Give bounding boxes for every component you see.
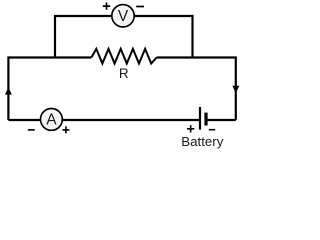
wire bottom horizontal (left of battery) xyxy=(8,119,199,121)
ammeter U-A circle xyxy=(41,109,63,131)
svg-text:A: A xyxy=(46,112,57,129)
current arrow up (left wire) xyxy=(5,87,12,94)
svg-text:V: V xyxy=(118,8,129,25)
ammeter + sign xyxy=(62,126,69,133)
resistor R xyxy=(91,49,156,64)
voltmeter U-V circle xyxy=(112,5,134,27)
voltmeter - sign xyxy=(136,6,144,8)
wire top-right horizontal + right vertical xyxy=(157,58,236,121)
wire voltmeter branch left xyxy=(55,16,112,58)
wire bottom-right (battery to right corner) xyxy=(207,119,236,121)
battery negative plate (short) xyxy=(204,113,207,126)
svg-text:R: R xyxy=(119,66,129,81)
wire voltmeter branch right xyxy=(134,16,193,58)
battery - sign xyxy=(209,129,216,131)
ammeter - sign xyxy=(28,129,35,131)
svg-text:Battery: Battery xyxy=(181,134,223,149)
battery positive plate (long) xyxy=(199,107,201,130)
battery + sign xyxy=(187,125,194,132)
voltmeter + sign xyxy=(103,2,110,9)
current arrow down (right wire) xyxy=(232,86,239,93)
wire left vertical + top-left horizontal xyxy=(8,58,91,121)
